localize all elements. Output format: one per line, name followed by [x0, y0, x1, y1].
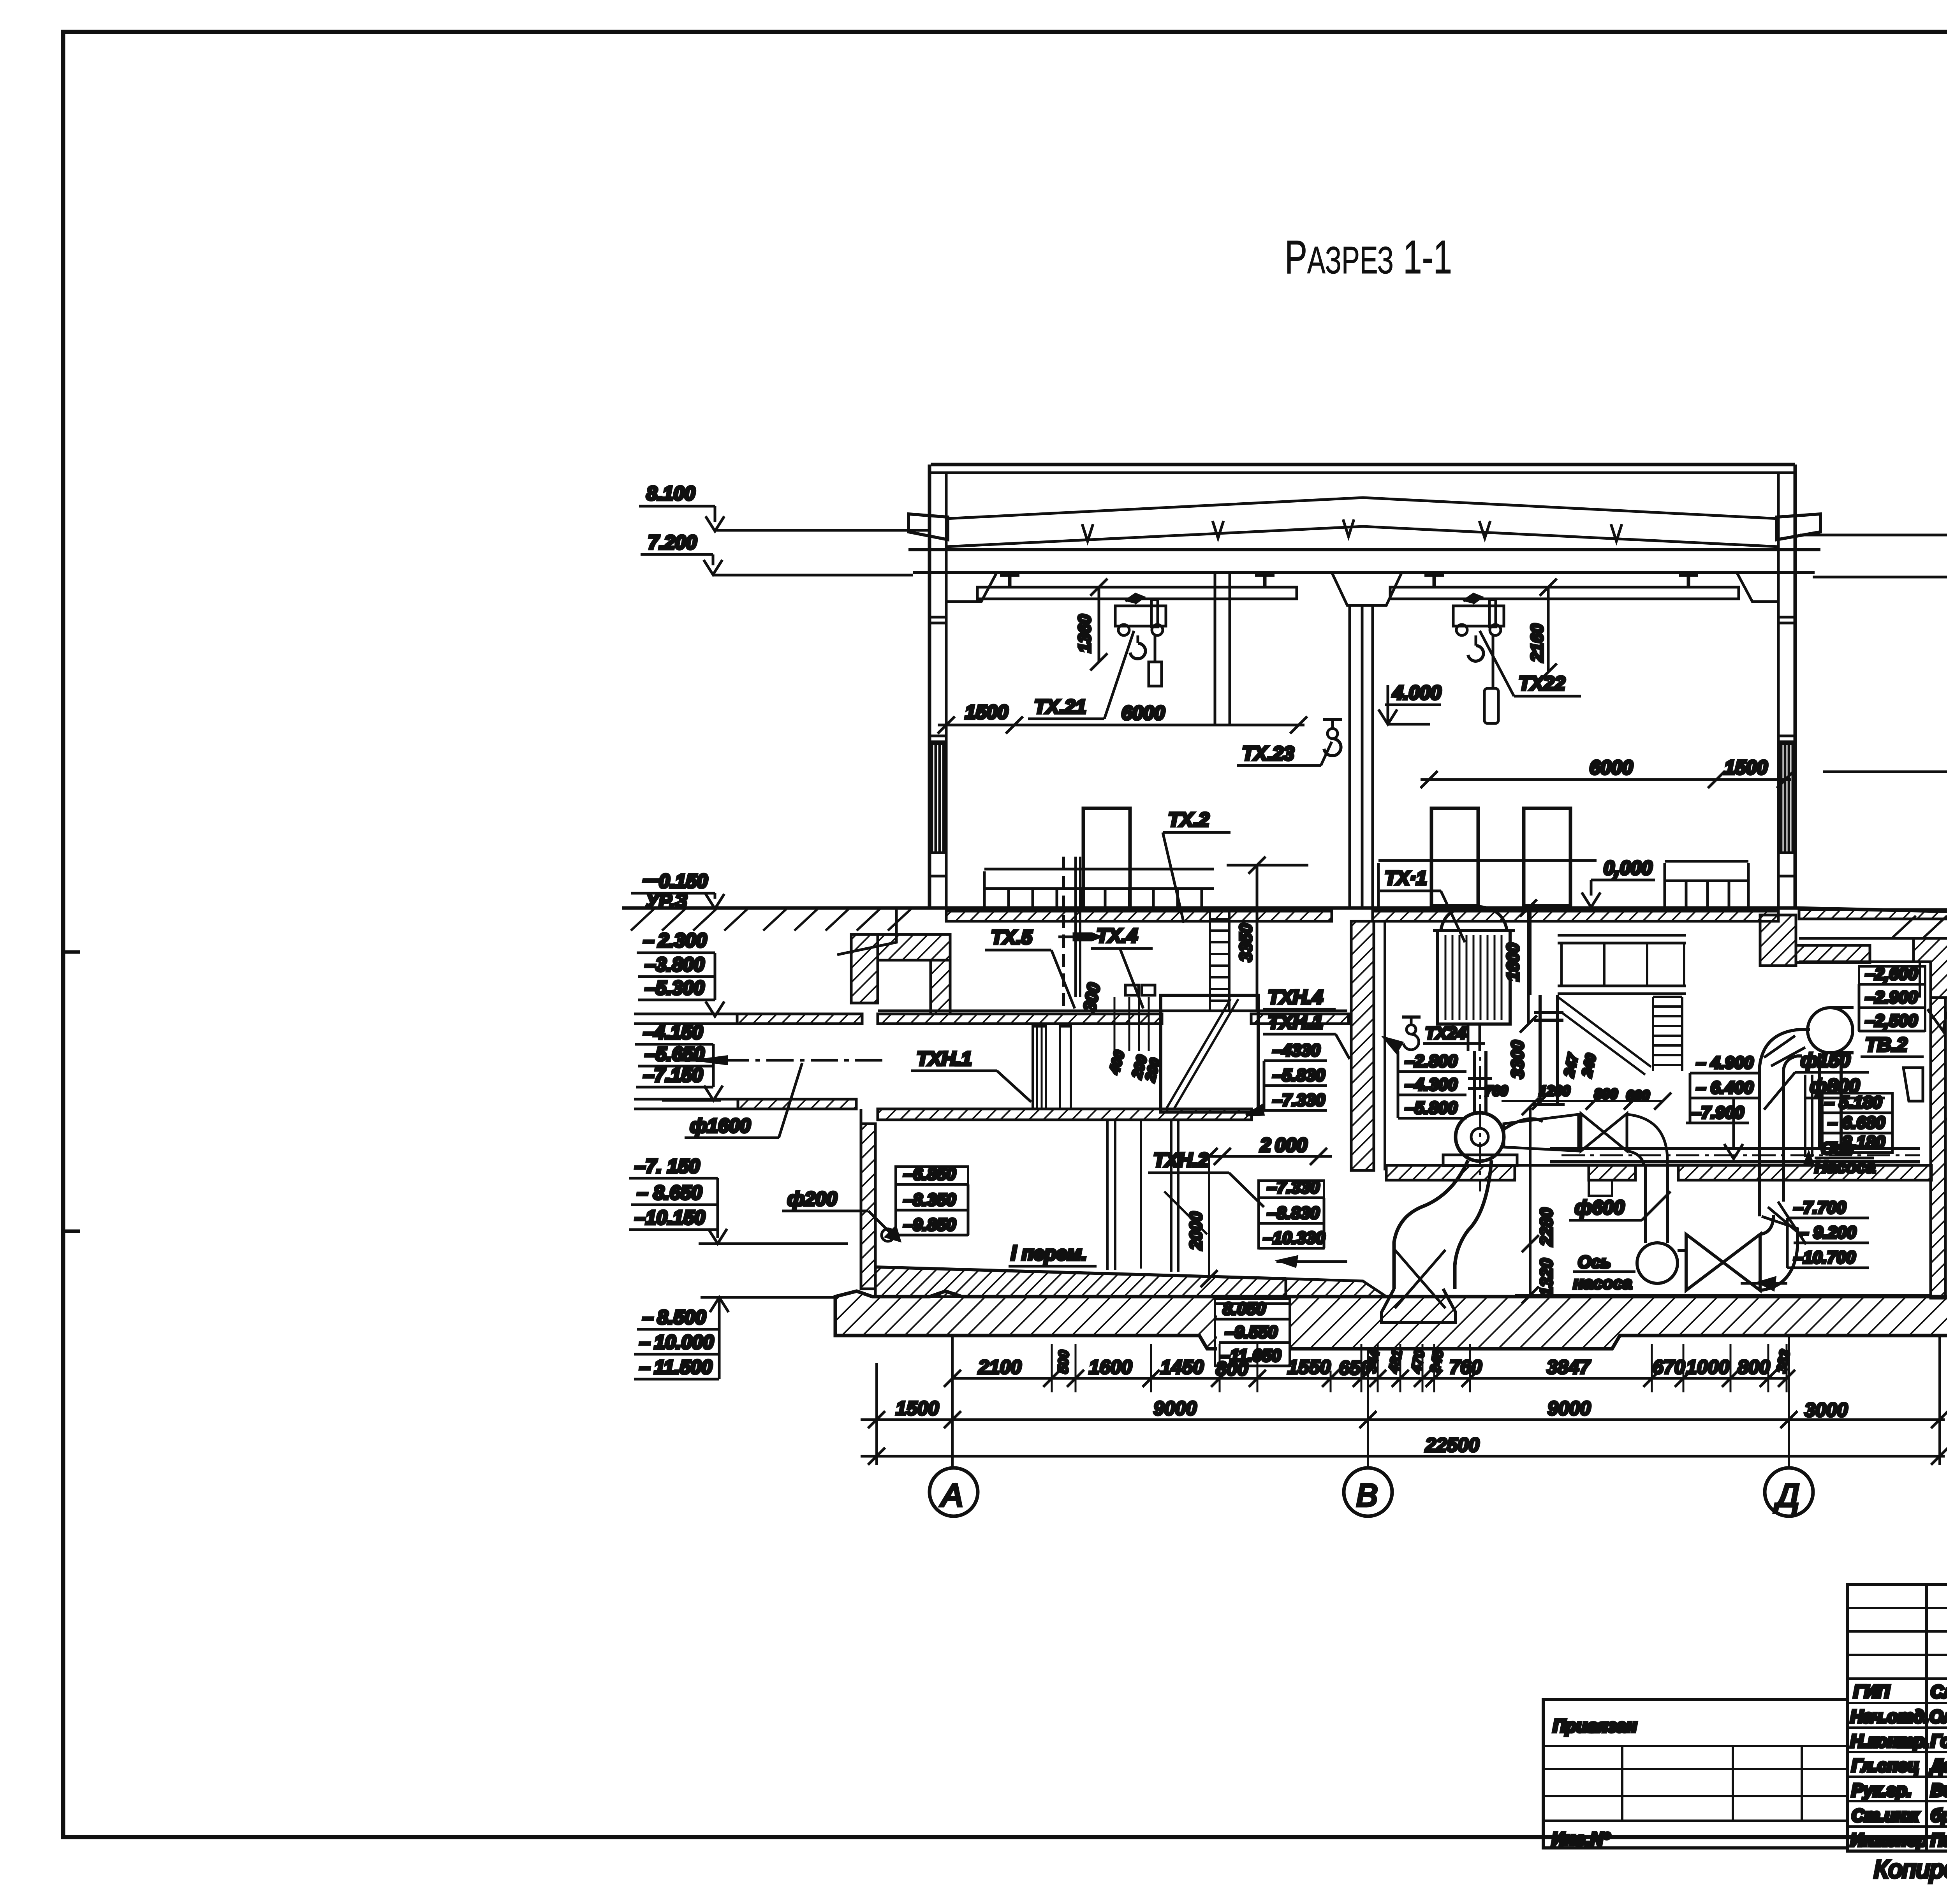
left wall panel joints	[929, 616, 946, 619]
roof parapet top edge lines	[931, 463, 1795, 466]
hook TX.23 symbol	[1323, 718, 1342, 721]
svg-text:ТХН.4: ТХН.4	[1268, 986, 1323, 1008]
hoist trolley TX.22	[1453, 606, 1504, 626]
left column capital	[946, 572, 997, 602]
svg-text:–10.150: –10.150	[635, 1207, 705, 1228]
svg-text:–8.350: –8.350	[903, 1190, 956, 1209]
left hall guard railing	[984, 868, 1214, 871]
right monorail hangers	[1433, 572, 1436, 587]
svg-text:ТХ.2: ТХ.2	[1168, 809, 1209, 831]
axis circle D	[1765, 1468, 1813, 1516]
svg-text:–7.700: –7.700	[1794, 1198, 1846, 1217]
gate slots on slab, small dims 400 200 200	[1114, 997, 1116, 1051]
dim 1360 (hoist height)	[1098, 587, 1100, 662]
lower gallery floor edge	[1515, 1294, 1931, 1296]
svg-text:ТХН.1: ТХН.1	[917, 1048, 972, 1070]
svg-text:ТВ.2: ТВ.2	[1865, 1034, 1908, 1056]
svg-text:Ось: Ось	[1578, 1253, 1611, 1272]
svg-text:7.200: 7.200	[648, 531, 697, 553]
elbow turning down	[1627, 1114, 1667, 1166]
right eave cap	[1777, 514, 1820, 540]
drain pipe f200	[882, 1229, 894, 1241]
svg-text:ТХ·1: ТХ·1	[1385, 867, 1427, 889]
center column capital	[1332, 572, 1402, 605]
gate valve (bowtie) on discharge	[1581, 1114, 1627, 1151]
svg-text:–5.830: –5.830	[1273, 1066, 1325, 1085]
svg-text:насоса: насоса	[1573, 1274, 1632, 1293]
pendant cable and control box of TX.22	[1492, 635, 1495, 688]
chain ticks	[944, 1370, 1795, 1387]
horizontal small dims 760 1200 800 600	[1502, 1100, 1663, 1102]
frame around level stack -6.850 group	[896, 1167, 968, 1235]
machine room base hatched strip	[1286, 1279, 1386, 1297]
svg-text:1500: 1500	[896, 1397, 939, 1419]
svg-text:8.100: 8.100	[646, 482, 695, 504]
svg-text:– 9.200: – 9.200	[1799, 1223, 1856, 1242]
vertical pipe f600 down	[1644, 1166, 1647, 1243]
svg-text:– 8.650: – 8.650	[637, 1182, 702, 1204]
svg-text:–5.300: –5.300	[645, 977, 704, 999]
svg-text:ТХ.4: ТХ.4	[1097, 925, 1138, 947]
hoist axis dashed line	[1062, 857, 1065, 1008]
hoist trolley TX.21	[1115, 606, 1166, 626]
right hall vent stack 2	[1524, 808, 1570, 906]
overall dim line 22500	[861, 1455, 1945, 1458]
left wall window band	[932, 744, 944, 853]
svg-text:1600: 1600	[1503, 943, 1523, 981]
svg-text:–8.830: –8.830	[1267, 1204, 1320, 1223]
f800 riser pipe	[1758, 1070, 1761, 1216]
svg-text:1320: 1320	[1537, 1258, 1556, 1297]
svg-text:Горячева: Горячева	[1931, 1731, 1947, 1751]
svg-text:братцева: братцева	[1931, 1805, 1947, 1825]
drop pipe from flange to discharge header	[1818, 1053, 1821, 1149]
svg-text:1550: 1550	[1287, 1356, 1331, 1378]
svg-text:–4330: –4330	[1273, 1041, 1320, 1060]
svg-text:–2,500: –2,500	[1865, 1011, 1918, 1030]
svg-text:800: 800	[1738, 1356, 1770, 1378]
svg-text:ТХН.1: ТХН.1	[1268, 1011, 1323, 1033]
left eave cap	[908, 514, 948, 540]
svg-text:Инв.Nº: Инв.Nº	[1552, 1829, 1611, 1849]
svg-text:1500: 1500	[965, 701, 1008, 723]
svg-text:ф200: ф200	[787, 1188, 837, 1210]
svg-text:800: 800	[1216, 1358, 1248, 1380]
inlet collector pipe f1600: top wall	[737, 1014, 862, 1024]
svg-text:4.000: 4.000	[1392, 682, 1441, 704]
svg-text:22500: 22500	[1425, 1434, 1479, 1456]
svg-text:– 8.500: – 8.500	[643, 1306, 706, 1328]
exterior ground line right with hatch	[1795, 908, 1947, 915]
signature table frame	[1848, 1584, 1947, 1851]
right wall window band	[1781, 744, 1793, 853]
svg-text:–7.330: –7.330	[1273, 1091, 1325, 1110]
svg-text:1600: 1600	[1089, 1356, 1132, 1378]
bottom horizontal run into big valve	[1678, 1249, 1686, 1252]
hanging gate TXH.1 (valve in channel)	[1033, 1026, 1046, 1109]
vertical dims 1600/3300/2280/1320 column	[1529, 908, 1532, 995]
svg-text:ф150: ф150	[1801, 1049, 1850, 1071]
svg-text:Гл.спец: Гл.спец	[1852, 1756, 1919, 1776]
outlet flange circle	[1808, 1008, 1853, 1053]
pump pedestal notch	[1589, 1180, 1612, 1196]
areaway corner wall block	[1760, 915, 1796, 966]
sloping tank bottom line	[875, 1267, 1286, 1279]
svg-text:ТХ22: ТХ22	[1519, 672, 1565, 694]
svg-text:– 4.900: – 4.900	[1696, 1053, 1753, 1072]
gallery end wall	[1919, 962, 1921, 998]
right hall vent stack 1	[1431, 808, 1478, 906]
left wall outer/inner lines	[928, 576, 931, 908]
svg-text:1450: 1450	[1160, 1356, 1204, 1378]
svg-text:– 8.180: – 8.180	[1828, 1133, 1885, 1152]
tank inner partition walls	[1106, 1120, 1109, 1270]
hook TX24	[1402, 1015, 1421, 1019]
pump volute	[1456, 1113, 1504, 1161]
frame around level stack -8.050 group	[1215, 1299, 1290, 1366]
svg-text:–7. 150: –7. 150	[635, 1155, 700, 1177]
svg-text:–7.900: –7.900	[1692, 1103, 1744, 1122]
arched roof slab top chord	[946, 498, 1778, 519]
svg-text:3350: 3350	[1236, 924, 1255, 962]
stair railing diagonal	[1558, 997, 1651, 1067]
discharge diffuser cone	[1504, 1114, 1579, 1151]
dim 3350 stair shaft depth	[1256, 865, 1259, 1012]
fan elbow top to horizontal	[1759, 1029, 1810, 1070]
hook of TX.21	[1137, 635, 1139, 643]
frame around level stack -5.180 group	[1822, 1093, 1892, 1153]
svg-text:8.050: 8.050	[1223, 1299, 1266, 1318]
svg-text:Вишнякова: Вишнякова	[1931, 1780, 1947, 1800]
pavement slab right of wall	[1799, 910, 1947, 919]
svg-text:Рук.гр.: Рук.гр.	[1852, 1780, 1912, 1800]
svg-text:1500: 1500	[1724, 757, 1767, 778]
privyazan table	[1543, 1700, 1848, 1848]
svg-text:Ольшанский: Ольшанский	[1929, 1707, 1947, 1726]
svg-text:2 000: 2 000	[1260, 1134, 1307, 1156]
collector centreline with flow arrow	[678, 1059, 884, 1062]
svg-text:– 11.500: – 11.500	[639, 1356, 712, 1378]
center dividing wall axis B	[1348, 605, 1351, 908]
svg-text:ГИП: ГИП	[1854, 1682, 1890, 1702]
ventilation duct TX.2	[1083, 808, 1130, 908]
svg-text:– 6.680: – 6.680	[1828, 1113, 1885, 1132]
discharge column pipe with flanges	[1539, 995, 1542, 1104]
svg-text:760: 760	[1484, 1083, 1508, 1099]
right wall panel joints	[1778, 616, 1795, 619]
right wall outer/inner lines	[1794, 576, 1797, 908]
chain extension stubs	[1052, 1344, 1787, 1392]
svg-text:6000: 6000	[1590, 757, 1633, 778]
inlet collector pipe f1600: bottom wall	[738, 1099, 856, 1109]
right parapet wall	[1794, 465, 1797, 576]
svg-text:Давыдова: Давыдова	[1929, 1756, 1947, 1776]
dim line 1500+6000 left hall	[938, 724, 1304, 727]
header axis dash-dot	[1561, 1154, 1920, 1156]
left monorail hangers	[1008, 572, 1012, 587]
axis spacing dim line 1500/9000/9000/3000	[861, 1418, 1945, 1421]
hook of TX.22	[1475, 635, 1477, 646]
svg-text:РАЗРЕЗ 1-1: РАЗРЕЗ 1-1	[1285, 231, 1452, 283]
axis circle B	[1344, 1468, 1392, 1516]
svg-text:Д: Д	[1774, 1478, 1799, 1513]
stair landing platform at -1.600	[1558, 934, 1686, 937]
svg-text:–10.700: –10.700	[1794, 1248, 1856, 1267]
svg-text:–5.650: –5.650	[645, 1043, 704, 1065]
svg-text:Паяскова: Паяскова	[1931, 1830, 1947, 1850]
svg-text:–9.850: –9.850	[903, 1215, 956, 1234]
svg-text:ТХ.23: ТХ.23	[1242, 743, 1294, 764]
svg-text:Ст.инж: Ст.инж	[1852, 1805, 1920, 1825]
pump shaft from motor down to volute	[1473, 1051, 1476, 1112]
exterior ground line left with hatch	[622, 906, 929, 910]
svg-text:－0.150: －0.150	[639, 870, 708, 892]
svg-text:i перем.: i перем.	[1011, 1242, 1087, 1264]
svg-text:– 5.180: – 5.180	[1825, 1093, 1882, 1112]
pump suction elbow down to bellmouth	[1394, 1160, 1468, 1289]
svg-text:–4.150: –4.150	[643, 1021, 703, 1043]
svg-text:ф1600: ф1600	[690, 1115, 751, 1137]
right column capital	[1737, 572, 1778, 602]
left parapet wall	[928, 465, 931, 576]
svg-text:–3.800: –3.800	[645, 954, 704, 975]
svg-text:А: А	[940, 1478, 963, 1513]
dim 1600 motor	[1527, 908, 1530, 1024]
svg-text:УР.З: УР.З	[646, 890, 687, 912]
ladder in stair shaft	[1210, 910, 1229, 1011]
svg-text:760: 760	[1449, 1356, 1482, 1378]
svg-text:– 10.000: – 10.000	[639, 1331, 714, 1353]
dim 2000 vertical	[1208, 1156, 1210, 1279]
dim 2160 (hoist height)	[1547, 587, 1550, 672]
svg-text:–2.800: –2.800	[1405, 1052, 1458, 1071]
left entry porch outside wall	[837, 908, 896, 955]
svg-text:ТХН.2: ТХН.2	[1153, 1149, 1209, 1171]
svg-text:9000: 9000	[1547, 1397, 1591, 1419]
svg-text:2160: 2160	[1528, 624, 1547, 662]
svg-text:Н.контр.: Н.контр.	[1850, 1731, 1929, 1751]
svg-text:800: 800	[1594, 1086, 1618, 1102]
machine room floor slab at -6.4	[1386, 1165, 1515, 1180]
svg-text:ТХ.21: ТХ.21	[1034, 696, 1086, 718]
level box -8.050 -9.550 -11.050	[1217, 1299, 1290, 1366]
TX.4 drop tube	[1074, 857, 1077, 997]
svg-text:2100: 2100	[978, 1356, 1021, 1378]
centre wall below floor (axis B)	[1351, 921, 1374, 1170]
receiving tank ceiling slab -4.150	[878, 1010, 1347, 1012]
pump motor TX-1	[1441, 906, 1507, 931]
axis extension lines	[875, 1363, 878, 1465]
svg-text:–5.800: –5.800	[1405, 1098, 1458, 1117]
detailed dimension chain line	[952, 1377, 1789, 1380]
svg-text:– 6.400: – 6.400	[1696, 1078, 1753, 1097]
fan elbow turning up	[1760, 1228, 1797, 1290]
bend joint circle	[1637, 1243, 1678, 1283]
left pit wall upper block (ground to -4.150)	[851, 934, 878, 1003]
svg-text:–4.300: –4.300	[1405, 1075, 1458, 1094]
svg-text:3000: 3000	[1804, 1399, 1848, 1421]
svg-text:Копировал: Копировал	[1874, 1855, 1947, 1883]
svg-text:3300: 3300	[1508, 1040, 1527, 1079]
right hall monorail beam	[1390, 587, 1739, 599]
right pit wall	[1931, 998, 1945, 1298]
center wall clerestory posts	[1214, 572, 1216, 725]
svg-text:Привязан: Привязан	[1553, 1716, 1637, 1736]
svg-text:–7.150: –7.150	[643, 1064, 703, 1086]
big gate valve (bowtie) bottom	[1686, 1234, 1760, 1290]
svg-text:1200: 1200	[1539, 1083, 1570, 1099]
svg-text:1360: 1360	[1075, 614, 1094, 653]
svg-text:500: 500	[1055, 1350, 1072, 1374]
dim line 6000+1500 right hall	[1421, 778, 1791, 781]
svg-text:–10.330: –10.330	[1263, 1228, 1326, 1248]
frame around level stack -7.330 group	[1259, 1181, 1324, 1248]
svg-text:ф600: ф600	[1575, 1197, 1625, 1218]
axis circle A	[929, 1468, 978, 1516]
foundation slab body	[835, 1291, 1947, 1349]
cornice band over halls	[908, 548, 1820, 551]
left hall monorail beam	[977, 587, 1297, 599]
svg-text:Инженер: Инженер	[1850, 1830, 1927, 1850]
suction valve cross	[1395, 1250, 1445, 1308]
screen chamber struts	[1161, 995, 1258, 1112]
f150 drain pipe with arrow	[1804, 1075, 1806, 1157]
svg-text:3847: 3847	[1547, 1356, 1591, 1378]
stair flight treads (section)	[1653, 997, 1682, 1071]
channel floor -7.150 slab	[878, 1109, 1252, 1120]
fold mark ticks on left border	[63, 950, 80, 954]
basement floor hatched mass above slab (left tank)	[875, 1267, 1286, 1297]
svg-text:ТХ24: ТХ24	[1425, 1024, 1466, 1043]
discharge header to wall	[1550, 1147, 1920, 1150]
frame around level stack -2.600 group	[1859, 966, 1925, 1031]
svg-text:6000: 6000	[1121, 702, 1165, 724]
pump axis dash-dot vertical	[1479, 1028, 1481, 1191]
svg-text:–9.550: –9.550	[1225, 1323, 1278, 1342]
roof panels bottom chord	[946, 526, 1778, 547]
svg-text:–2.900: –2.900	[1865, 988, 1918, 1007]
svg-text:ТХ.5: ТХ.5	[991, 926, 1033, 948]
svg-text:670: 670	[1653, 1356, 1685, 1378]
svg-text:– 2.300: – 2.300	[643, 929, 707, 951]
ground floor slab 0.000	[929, 906, 1795, 910]
panel joints with V notches	[1082, 524, 1093, 541]
svg-text:Слегин: Слегин	[1931, 1682, 1947, 1702]
svg-text:600: 600	[1626, 1087, 1649, 1103]
svg-text:В: В	[1356, 1478, 1378, 1513]
svg-text:9000: 9000	[1153, 1397, 1197, 1419]
svg-text:Нач.отд.: Нач.отд.	[1850, 1707, 1929, 1726]
pump plinth	[1443, 1155, 1517, 1166]
svg-text:1000: 1000	[1686, 1356, 1729, 1378]
svg-text:Насоса: Насоса	[1815, 1158, 1876, 1177]
svg-text:0,000: 0,000	[1604, 857, 1652, 879]
pendant cable and control box of TX.21	[1154, 635, 1157, 662]
svg-text:2000: 2000	[1187, 1212, 1206, 1250]
right hall guard railing	[1378, 859, 1597, 862]
svg-text:2280: 2280	[1537, 1208, 1556, 1246]
tank inner wall below collector	[861, 1124, 875, 1289]
